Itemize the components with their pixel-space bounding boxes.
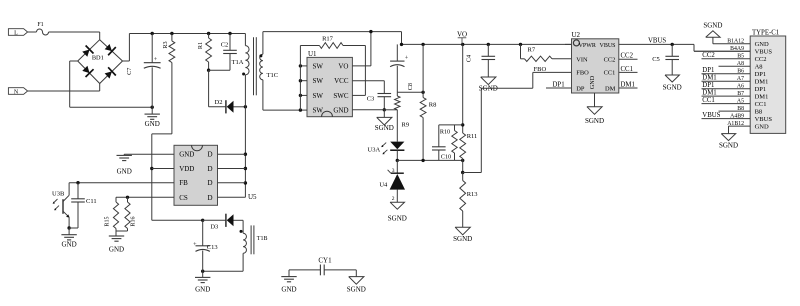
- svg-text:DM1: DM1: [755, 93, 769, 100]
- svg-text:CC2: CC2: [755, 56, 767, 63]
- svg-text:SGND: SGND: [585, 117, 604, 125]
- svg-text:SGND: SGND: [663, 83, 682, 91]
- svg-text:C11: C11: [86, 198, 97, 205]
- svg-text:U2: U2: [572, 31, 581, 39]
- svg-text:C2: C2: [221, 42, 229, 49]
- svg-text:VIN: VIN: [576, 57, 588, 64]
- svg-text:DP1: DP1: [553, 81, 565, 88]
- svg-text:SGND: SGND: [375, 124, 394, 132]
- svg-text:D: D: [207, 151, 212, 159]
- svg-text:R13: R13: [467, 191, 478, 198]
- svg-text:GND: GND: [281, 286, 296, 294]
- svg-text:T1C: T1C: [267, 72, 279, 79]
- svg-text:CC2: CC2: [621, 53, 634, 60]
- svg-text:VBUS: VBUS: [755, 116, 773, 123]
- svg-text:C4: C4: [465, 55, 472, 62]
- svg-text:VBUS: VBUS: [702, 112, 720, 119]
- svg-text:CC1: CC1: [604, 70, 616, 77]
- svg-text:VBUS: VBUS: [599, 43, 615, 49]
- svg-text:R8: R8: [429, 102, 437, 109]
- svg-text:F1: F1: [37, 22, 43, 28]
- svg-text:C3: C3: [367, 96, 375, 103]
- svg-text:D: D: [207, 165, 212, 173]
- svg-text:T1A: T1A: [232, 59, 244, 66]
- svg-text:DP1: DP1: [702, 82, 714, 89]
- svg-text:R11: R11: [467, 133, 478, 140]
- svg-text:C5: C5: [652, 56, 660, 63]
- svg-text:CC2: CC2: [702, 52, 715, 59]
- svg-text:B8: B8: [755, 108, 763, 115]
- svg-text:CC1: CC1: [621, 66, 633, 73]
- svg-text:SGND: SGND: [388, 215, 407, 223]
- svg-text:+: +: [193, 241, 197, 248]
- svg-text:BD1: BD1: [92, 55, 104, 62]
- svg-text:CS: CS: [179, 194, 188, 202]
- svg-text:D: D: [207, 179, 212, 187]
- svg-text:SW: SW: [313, 92, 324, 100]
- svg-text:DP1: DP1: [755, 86, 767, 93]
- svg-text:R7: R7: [528, 47, 536, 54]
- svg-text:CC2: CC2: [604, 57, 616, 64]
- svg-text:SGND: SGND: [453, 235, 472, 243]
- svg-text:DP1: DP1: [702, 67, 714, 74]
- svg-text:C8: C8: [407, 83, 414, 90]
- svg-text:DM: DM: [605, 85, 616, 92]
- svg-text:U1: U1: [308, 50, 317, 58]
- svg-text:FBO: FBO: [576, 70, 589, 77]
- svg-text:D3: D3: [210, 224, 218, 231]
- svg-text:DM1: DM1: [621, 81, 635, 88]
- svg-text:R10: R10: [440, 129, 450, 136]
- svg-text:R15: R15: [105, 216, 111, 226]
- svg-text:TYPE-C1: TYPE-C1: [752, 29, 779, 36]
- svg-text:U5: U5: [248, 193, 257, 201]
- svg-text:GND: GND: [179, 151, 194, 159]
- svg-text:GND: GND: [333, 107, 348, 115]
- svg-text:C7: C7: [126, 68, 133, 75]
- svg-text:2: 2: [392, 196, 395, 202]
- svg-text:VBUS: VBUS: [755, 49, 773, 56]
- svg-text:VPWR: VPWR: [579, 43, 596, 49]
- svg-text:C10: C10: [441, 154, 451, 161]
- svg-text:GND: GND: [109, 245, 124, 253]
- svg-text:DM1: DM1: [702, 90, 716, 97]
- svg-text:D2: D2: [215, 99, 223, 106]
- svg-text:CY1: CY1: [318, 257, 332, 265]
- svg-text:GND: GND: [755, 41, 769, 48]
- svg-text:SW: SW: [313, 62, 324, 70]
- svg-text:SW: SW: [313, 77, 324, 85]
- svg-text:+: +: [154, 56, 158, 63]
- svg-text:VDD: VDD: [179, 165, 194, 173]
- svg-text:R3: R3: [162, 41, 169, 48]
- svg-text:VCC: VCC: [334, 77, 349, 85]
- svg-text:A8: A8: [755, 64, 763, 71]
- svg-text:SGND: SGND: [347, 286, 366, 294]
- svg-text:D: D: [207, 194, 212, 202]
- svg-text:R1: R1: [197, 42, 204, 49]
- svg-text:U3A: U3A: [368, 147, 381, 154]
- svg-text:GND: GND: [145, 120, 160, 128]
- svg-text:C13: C13: [207, 244, 218, 251]
- svg-text:R17: R17: [322, 36, 334, 43]
- svg-text:U4: U4: [379, 181, 388, 188]
- svg-text:CC1: CC1: [702, 97, 714, 104]
- svg-text:R16: R16: [131, 216, 137, 226]
- svg-text:SGND: SGND: [719, 142, 738, 150]
- svg-text:DM1: DM1: [755, 79, 769, 86]
- svg-text:CC1: CC1: [755, 101, 767, 108]
- svg-text:U3B: U3B: [52, 191, 65, 198]
- svg-text:R9: R9: [402, 122, 410, 129]
- svg-text:VO: VO: [338, 62, 348, 70]
- svg-text:N: N: [14, 89, 19, 95]
- svg-text:FBO: FBO: [534, 66, 547, 73]
- svg-text:+: +: [405, 55, 409, 62]
- svg-text:GND: GND: [589, 75, 596, 89]
- svg-text:DP: DP: [576, 85, 585, 92]
- svg-text:GND: GND: [755, 123, 769, 130]
- svg-text:GND: GND: [195, 286, 210, 294]
- svg-text:VBUS: VBUS: [648, 38, 666, 45]
- svg-text:GND: GND: [117, 168, 132, 176]
- svg-text:T1B: T1B: [257, 236, 268, 242]
- svg-text:SWC: SWC: [333, 92, 349, 100]
- svg-text:SGND: SGND: [703, 22, 722, 30]
- svg-text:FB: FB: [179, 179, 188, 187]
- svg-text:GND: GND: [62, 241, 77, 249]
- svg-text:DM1: DM1: [702, 75, 716, 82]
- svg-text:SW: SW: [313, 107, 324, 115]
- svg-text:DP1: DP1: [755, 71, 767, 78]
- svg-text:L: L: [14, 30, 18, 36]
